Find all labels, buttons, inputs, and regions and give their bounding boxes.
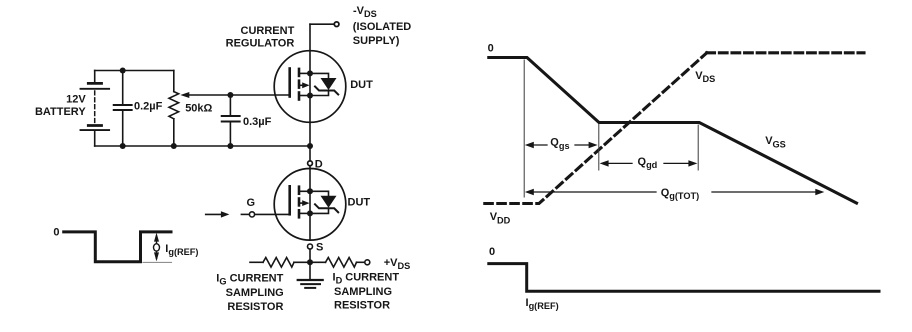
- guide line 1: [523, 60, 525, 197]
- terminal G open circle: [249, 212, 254, 217]
- svg-text:REGULATOR: REGULATOR: [226, 38, 295, 50]
- svg-text:G: G: [247, 197, 256, 209]
- reference line gray: [143, 261, 172, 263]
- Q1 body arrow: [299, 84, 304, 86]
- Q1 drain connection: [299, 72, 310, 74]
- svg-text:Qgd: Qgd: [638, 156, 658, 170]
- wire -VDS supply lead: [310, 23, 334, 25]
- wire bottom rail: [95, 145, 310, 147]
- svg-text:SAMPLING: SAMPLING: [334, 286, 392, 298]
- injection arrow: [206, 213, 222, 215]
- label ID CURRENT SAMPLING RESISTOR: [333, 271, 400, 311]
- Q1 gate bar: [288, 69, 291, 97]
- svg-text:DUT: DUT: [350, 79, 373, 91]
- label Ig(REF) left: [165, 243, 198, 257]
- transistor Q2 DUT MOSFET body: [274, 169, 346, 241]
- transistor Q1 current regulator MOSFET body: [274, 51, 346, 123]
- resistor R1 50k potentiometer: [169, 71, 179, 147]
- node junction R1 bottom: [171, 143, 177, 149]
- Q2 channel segments: [298, 187, 301, 194]
- label VGS graph: [765, 135, 786, 149]
- wire wiper arrow to gate: [188, 94, 290, 96]
- graph VDS dashed curve: [485, 53, 707, 204]
- svg-text:50kΩ: 50kΩ: [185, 103, 212, 115]
- svg-text:Ig(REF): Ig(REF): [526, 297, 559, 311]
- svg-text:VGS: VGS: [765, 135, 786, 149]
- waveform Ig(REF) graph (bottom right): [489, 264, 879, 292]
- svg-text:(ISOLATED: (ISOLATED: [353, 21, 412, 33]
- capacitor C1 0.2uF: [114, 71, 132, 147]
- node junction C1 bottom: [120, 143, 126, 149]
- label 0.2uF: [134, 101, 163, 113]
- svg-text:CURRENT: CURRENT: [241, 25, 295, 37]
- svg-text:ID CURRENT: ID CURRENT: [333, 271, 400, 285]
- label 12V BATTERY: [35, 94, 86, 119]
- dimension arrow Ig(REF): [154, 233, 160, 262]
- svg-text:0: 0: [53, 227, 59, 239]
- terminal D open circle: [308, 161, 313, 166]
- label VDD graph: [490, 211, 511, 225]
- svg-text:BATTERY: BATTERY: [35, 106, 86, 118]
- resistor R3 ID sampling: [310, 258, 364, 268]
- node bottom rail to Q1: [307, 143, 313, 149]
- Q1 body diode (zener): [321, 78, 337, 90]
- svg-text:VDD: VDD: [490, 211, 511, 225]
- svg-text:DUT: DUT: [348, 196, 371, 208]
- node junction C1 top: [120, 68, 126, 74]
- svg-text:-VDS: -VDS: [353, 5, 377, 19]
- svg-text:+VDS: +VDS: [384, 257, 411, 271]
- svg-text:VDS: VDS: [695, 70, 715, 84]
- svg-text:0: 0: [489, 246, 495, 258]
- label Ig(REF) bottom right: [526, 297, 559, 311]
- battery B1: [81, 71, 110, 147]
- Q2 node drain: [307, 188, 313, 194]
- label 0.3uF: [243, 116, 272, 128]
- label VDS graph: [695, 70, 715, 84]
- resistor R2 IG sampling: [250, 258, 310, 268]
- svg-text:0.3µF: 0.3µF: [243, 116, 272, 128]
- wire drain vertical through Q1: [309, 24, 311, 161]
- svg-text:0.2µF: 0.2µF: [134, 101, 163, 113]
- terminal +VDS open circle: [365, 260, 370, 265]
- Q2 node source: [307, 210, 313, 216]
- dimension arrow Qgs: [525, 142, 598, 148]
- Q2 body arrow: [299, 202, 304, 204]
- svg-text:S: S: [316, 242, 323, 254]
- wire S to resistor node: [309, 249, 311, 262]
- Q1 channel segments: [298, 69, 301, 76]
- wire D to Q2: [309, 166, 311, 169]
- label -VDS (ISOLATED SUPPLY): [353, 5, 412, 47]
- label DUT Q2: [348, 196, 371, 208]
- Q2 body diode (zener): [321, 196, 337, 208]
- graph VGS curve: [489, 58, 857, 204]
- guide line 3: [697, 125, 699, 170]
- Q2 vertical channel wire: [309, 169, 311, 241]
- svg-text:SUPPLY): SUPPLY): [353, 35, 400, 47]
- terminal S open circle: [308, 244, 313, 249]
- Q1 body diode loop: [310, 73, 329, 95]
- Q2 body diode loop: [310, 191, 329, 213]
- node resistor junction: [307, 259, 313, 265]
- svg-text:Qg(TOT): Qg(TOT): [661, 187, 700, 201]
- label CURRENT REGULATOR: [226, 25, 295, 50]
- label D: [315, 159, 323, 171]
- svg-text:0: 0: [488, 42, 494, 54]
- graph VDS dashed curve top flat: [707, 51, 864, 54]
- Q1 node source: [307, 93, 313, 99]
- label DUT Q1: [350, 79, 373, 91]
- svg-text:RESISTOR: RESISTOR: [334, 300, 390, 312]
- svg-text:Qgs: Qgs: [550, 137, 569, 151]
- Q1 source connection: [299, 95, 310, 97]
- label 0 input waveform: [53, 227, 59, 239]
- Q2 drain connection: [299, 190, 310, 192]
- label Qgd: [638, 156, 658, 170]
- Q2 gate bar: [288, 186, 291, 214]
- wire top rail battery to 50k: [95, 70, 174, 72]
- guide line 2: [598, 125, 600, 171]
- label IG CURRENT SAMPLING RESISTOR: [216, 272, 283, 313]
- svg-text:RESISTOR: RESISTOR: [227, 301, 283, 313]
- dimension arrow Qgd: [600, 160, 698, 166]
- svg-text:Ig(REF): Ig(REF): [165, 243, 198, 257]
- ground: [298, 262, 323, 288]
- label 0 graph: [488, 42, 494, 54]
- wire G to gate: [255, 213, 290, 215]
- label 0 bottom right: [489, 246, 495, 258]
- label Qgs: [550, 137, 569, 151]
- terminal -VDS open circle: [334, 22, 339, 27]
- dimension arrow Qg(TOT): [525, 189, 825, 195]
- svg-text:IG CURRENT: IG CURRENT: [216, 272, 283, 286]
- label G: [247, 197, 256, 209]
- label S: [316, 242, 323, 254]
- svg-text:SAMPLING: SAMPLING: [226, 287, 284, 299]
- Q1 node drain: [307, 70, 313, 76]
- label +VDS: [384, 257, 411, 271]
- node junction C2 bottom: [227, 143, 233, 149]
- label 50k: [185, 103, 212, 115]
- waveform Ig(REF) input (left): [64, 232, 171, 262]
- wiper arrowhead: [180, 92, 189, 98]
- capacitor C2 0.3uF: [222, 95, 240, 146]
- wire G lead: [241, 213, 249, 215]
- Q2 source connection: [299, 212, 310, 214]
- label Qg(TOT): [661, 187, 700, 201]
- node junction C2 top: [227, 92, 233, 98]
- svg-text:12V: 12V: [66, 94, 86, 106]
